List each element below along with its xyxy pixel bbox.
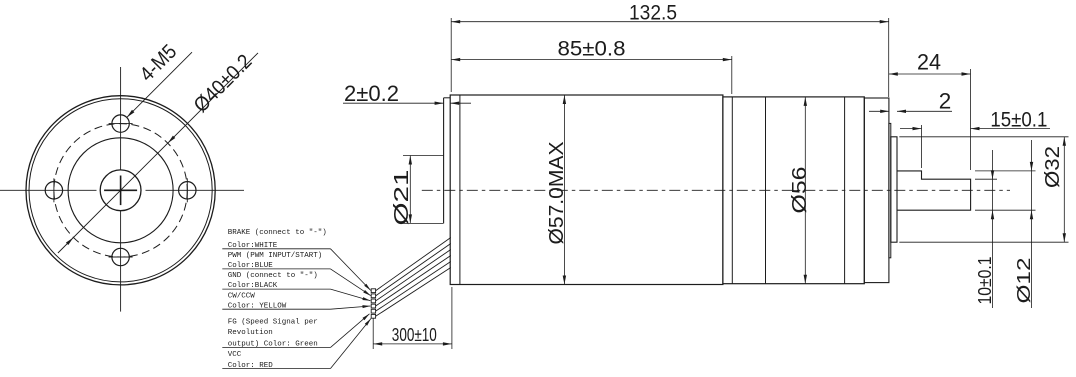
svg-text:FG (Speed Signal per: FG (Speed Signal per bbox=[228, 319, 318, 327]
svg-text:2±0.2: 2±0.2 bbox=[344, 81, 399, 106]
svg-text:Ø12: Ø12 bbox=[1013, 258, 1034, 304]
svg-text:Ø32: Ø32 bbox=[1041, 146, 1064, 188]
svg-text:CW/CCW: CW/CCW bbox=[228, 292, 256, 300]
svg-text:85±0.8: 85±0.8 bbox=[558, 37, 626, 61]
svg-text:24: 24 bbox=[917, 49, 941, 74]
svg-text:BRAKE (connect to "-"): BRAKE (connect to "-") bbox=[228, 229, 327, 237]
svg-text:Ø21: Ø21 bbox=[390, 170, 413, 226]
svg-text:132.5: 132.5 bbox=[629, 1, 677, 25]
svg-text:VCC: VCC bbox=[228, 351, 242, 359]
svg-text:Ø56: Ø56 bbox=[788, 167, 811, 214]
svg-text:Revolution: Revolution bbox=[228, 329, 273, 337]
svg-text:GND (connect to "-"): GND (connect to "-") bbox=[228, 272, 318, 280]
svg-text:10±0.1: 10±0.1 bbox=[974, 257, 995, 305]
svg-text:15±0.1: 15±0.1 bbox=[990, 108, 1047, 132]
svg-text:Ø57.0MAX: Ø57.0MAX bbox=[545, 141, 568, 244]
svg-text:2: 2 bbox=[939, 89, 952, 114]
svg-text:300±10: 300±10 bbox=[392, 324, 437, 345]
svg-text:PWM (PWM INPUT/START): PWM (PWM INPUT/START) bbox=[228, 252, 323, 260]
